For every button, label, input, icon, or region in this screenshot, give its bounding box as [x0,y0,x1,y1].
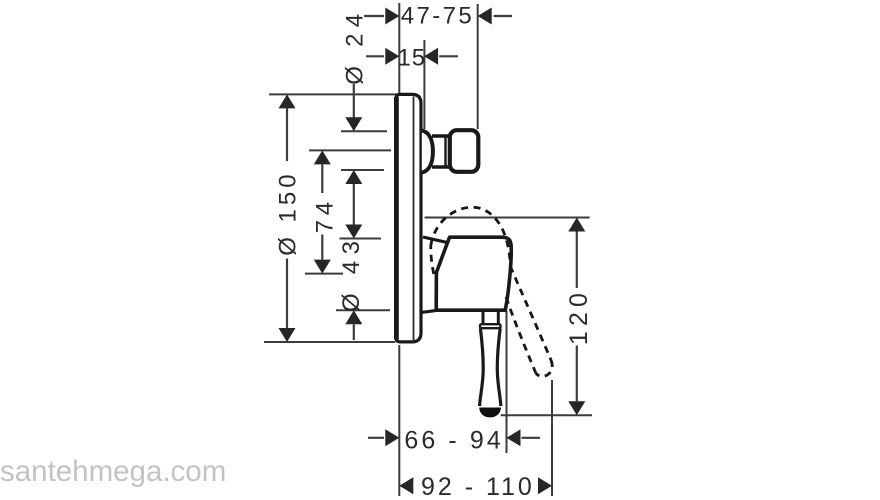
extension line 92-110 right [551,380,553,496]
lever rod collar [480,324,501,328]
tick body axis [305,273,343,275]
plate inner line [413,97,415,341]
tick knob bottom (Ø24) [341,169,384,171]
dashed handle alternate position: body top arc [431,207,510,266]
svg-text:Ø 150: Ø 150 [275,170,302,255]
extension line 120 top [425,217,590,219]
dimension 47-75 [364,15,512,17]
dimension Ø150 [286,107,288,330]
dimension Ø24 [353,84,355,226]
shut-off knob: cylinder [432,135,450,168]
svg-text:66 - 94: 66 - 94 [404,426,504,454]
dimension 120 [576,232,578,402]
svg-text:47-75: 47-75 [401,3,474,30]
extension line 47-75 right [477,4,479,129]
dashed lever tip [536,360,552,376]
handle neck top edge [423,237,448,243]
handle neck bottom edge [422,310,437,312]
dashed lever lower edge [506,296,537,374]
extension line wall bottom [398,345,400,496]
extension line 66-94 right [506,311,508,453]
shut-off knob: dome at plate [422,130,433,172]
svg-text:Ø 43: Ø 43 [338,235,365,312]
dimension 74 [321,164,323,259]
extension line 15 right [423,40,425,129]
lever rod bottom cap [479,408,501,418]
extension line 120 bottom [501,414,592,416]
svg-text:15: 15 [397,44,426,71]
tick body top (Ø43) [340,238,382,240]
shut-off knob: cap [450,130,479,172]
svg-text:Ø 24: Ø 24 [342,8,369,85]
dimension 15 [366,55,458,57]
svg-text:santehmega.com: santehmega.com [0,455,226,488]
handle body [436,237,511,310]
dimension 92-110 [399,477,413,494]
escutcheon plate (side view) [396,94,421,342]
lever rod shaft [480,328,484,406]
dimension 66-94 [368,437,540,439]
dimension Ø43 [345,225,362,239]
tick plate top [269,93,399,95]
tick body bottom (Ø43) [336,309,390,311]
tick knob axis [309,149,391,151]
tick plate bottom [264,341,395,343]
tick knob top (Ø24) [341,130,387,132]
plate front face thick edge [394,97,399,340]
dashed lever upper edge [510,266,551,360]
svg-text:92 - 110: 92 - 110 [421,473,535,500]
dashed handle alternate position: body left edge [431,246,434,275]
svg-text:74: 74 [312,197,339,233]
lever rod stem [483,311,498,324]
extension line 47-75 left [398,3,400,95]
svg-text:120: 120 [565,288,593,345]
